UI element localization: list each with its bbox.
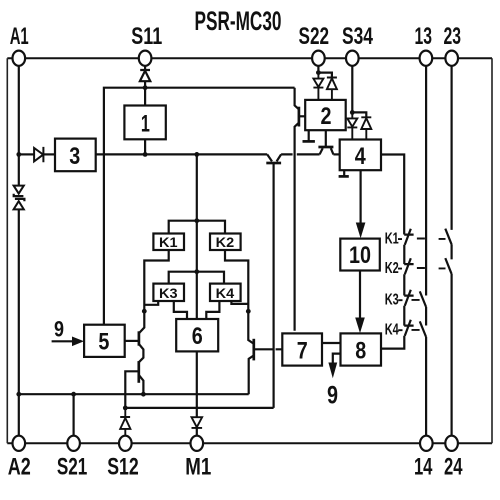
wire K1K2 bracket: [169, 221, 225, 234]
wire S34 to right diode: [352, 112, 366, 117]
wire box7 to box8: [322, 342, 341, 344]
dashed linkage K4: [398, 329, 419, 331]
wire 23 vertical: [451, 66, 453, 230]
terminal S12: [119, 436, 132, 451]
contact K1 in 23-24 path (NO): [445, 229, 451, 260]
svg-text:4: 4: [355, 143, 366, 170]
node S12 on rail B: [123, 406, 128, 411]
relay coil K1: [153, 234, 184, 251]
svg-text:S34: S34: [342, 24, 374, 50]
node right coil rail: [246, 309, 251, 314]
svg-text:2: 2: [321, 103, 332, 130]
contact K3 in 13-14 path (NO): [420, 291, 426, 325]
transistor Q3 (upper, inline on vertical, base to box2): [295, 88, 306, 331]
wire K4 bottom-left to box6: [206, 301, 219, 319]
svg-text:S11: S11: [131, 24, 162, 50]
wire rail A (A2 rail): [19, 393, 249, 395]
svg-text:8: 8: [355, 337, 366, 364]
diode S22-right (up): [327, 78, 337, 100]
box 1: [124, 106, 165, 140]
svg-text:9: 9: [327, 382, 338, 410]
terminal S21: [67, 436, 80, 451]
node bus-Kcolumn: [194, 152, 199, 157]
box 7: [282, 333, 322, 365]
transistor Q6 darlington lower: [139, 361, 144, 394]
wire S34 stub: [351, 66, 353, 113]
node bus-box1: [143, 152, 148, 157]
svg-text:K3: K3: [385, 291, 399, 308]
contact K2 in 23-24 path (NO): [445, 258, 451, 436]
node K3K4 bracket: [194, 269, 199, 274]
svg-text:6: 6: [192, 323, 203, 350]
dashed linkage K2: [398, 267, 446, 270]
svg-text:K3: K3: [159, 286, 178, 302]
box 3: [55, 139, 96, 172]
svg-text:24: 24: [444, 454, 463, 480]
node darlington emitter on rail: [141, 392, 146, 397]
terminal S34: [346, 51, 359, 66]
wire box5 base out: [125, 340, 139, 342]
wire A1 to diode: [19, 153, 34, 155]
diode S11: [140, 70, 150, 81]
outer frame: [7, 58, 492, 443]
arrow box10 to box8: [355, 271, 365, 334]
contact K3 feedback (NC): [404, 290, 413, 326]
node S21 on rail: [71, 392, 76, 397]
wire box1 bottom: [144, 139, 146, 154]
svg-text:A1: A1: [10, 24, 29, 50]
box 10: [340, 239, 380, 271]
box 8: [341, 333, 382, 365]
relay coil K3: [153, 284, 184, 301]
svg-text:S21: S21: [57, 454, 88, 480]
svg-text:7: 7: [297, 337, 308, 364]
svg-text:A2: A2: [8, 454, 31, 480]
wire K2 bottom to right rail: [225, 250, 248, 311]
box 6: [176, 319, 218, 351]
svg-text:K1: K1: [385, 230, 399, 247]
wire A1 vertical: [18, 66, 20, 436]
terminal S22: [312, 51, 325, 66]
relay coil K2: [210, 234, 241, 251]
transistor Q4 (base to box7): [248, 311, 282, 394]
svg-text:14: 14: [414, 454, 433, 480]
wire box4 right output: [381, 155, 404, 235]
wire K1 bottom to left rail: [144, 250, 168, 311]
node A2 rail left: [16, 392, 21, 397]
wire rail B (S12 rail): [125, 407, 273, 409]
svg-text:S22: S22: [299, 24, 330, 50]
terminal 13: [420, 51, 433, 66]
svg-text:K2: K2: [216, 235, 235, 251]
node left coil rail: [142, 309, 147, 314]
diode S34-left (down): [347, 112, 357, 139]
box 2: [305, 100, 346, 130]
terminal 24: [445, 436, 458, 451]
svg-text:23: 23: [444, 24, 462, 50]
arrow box4 to box10: [356, 170, 366, 238]
svg-text:K4: K4: [216, 286, 235, 302]
terminal 23: [445, 51, 458, 66]
wire K3K4 bracket: [169, 272, 224, 284]
wire M1 diode to terminal: [196, 428, 198, 436]
diode S12 (zener up): [120, 408, 130, 436]
arrow output 9 below box8: [328, 354, 340, 379]
terminal A2: [12, 436, 25, 451]
wire S22 to right diode: [318, 73, 332, 78]
relay coil K4: [210, 284, 241, 301]
diode M1: [192, 417, 203, 428]
box 4: [340, 140, 381, 171]
node A1-bus junction: [16, 152, 21, 157]
wire S22 stub: [317, 66, 319, 73]
svg-text:3: 3: [69, 143, 80, 170]
box 5: [84, 325, 125, 357]
wire K3 bottom-right to box6: [174, 301, 187, 319]
svg-text:S12: S12: [107, 454, 139, 480]
contact K4 feedback (NC): [381, 320, 414, 349]
wire box1 top: [144, 88, 146, 106]
terminal S11: [139, 51, 152, 66]
wire S21 stub: [72, 394, 74, 436]
svg-text:9: 9: [54, 316, 64, 341]
transistor Q2 (inline, base to box2): [318, 130, 333, 154]
node K1K2 bracket: [194, 218, 199, 223]
wire box6 bottom to M1: [196, 351, 198, 417]
svg-text:K1: K1: [159, 235, 178, 251]
wire K column vertical: [196, 154, 198, 319]
wire K3 bottom-left join: [144, 301, 158, 305]
svg-text:M1: M1: [185, 454, 211, 480]
arrow input 9 to box5: [52, 337, 84, 347]
node S34 junction: [350, 110, 355, 115]
wire diode to box3: [43, 153, 55, 155]
contact K2 feedback (NC): [404, 258, 413, 295]
TVS diode A1-A2: [14, 186, 25, 210]
ground below box2: [303, 130, 315, 141]
node S11-bus junction: [143, 85, 148, 90]
diode S34-right (up): [361, 117, 371, 139]
transistor Q1 (inline on bus): [266, 154, 281, 408]
wire Q2 to box4: [333, 153, 339, 155]
terminal M1: [191, 436, 204, 451]
ground below box4: [339, 170, 349, 176]
svg-text:1: 1: [141, 111, 150, 138]
dashed linkage K3: [398, 299, 419, 301]
diode S22-left (down): [313, 73, 323, 100]
wire main bus y=154.4: [96, 153, 268, 155]
wire bus right of Q1: [281, 153, 320, 155]
wire S11 stub: [144, 66, 146, 88]
svg-text:5: 5: [98, 328, 109, 355]
dashed linkage K1: [398, 238, 446, 241]
node S22 junction: [316, 70, 321, 75]
svg-text:PSR-MC30: PSR-MC30: [195, 6, 282, 36]
svg-text:13: 13: [414, 24, 432, 50]
contact K4 in 13-14 path (NO): [420, 321, 426, 435]
wire 13 vertical: [425, 66, 427, 296]
diode D-A1 (to box 3): [34, 147, 43, 162]
terminal A1: [12, 51, 25, 66]
terminal 14: [420, 436, 433, 451]
svg-text:K2: K2: [385, 260, 399, 277]
wire Q6 base shunt: [125, 371, 139, 408]
wire K4 bottom-right join: [231, 301, 248, 304]
wire top bus y=87.7: [104, 88, 295, 325]
svg-text:K4: K4: [385, 321, 399, 338]
contact K1 feedback (NC): [404, 229, 413, 264]
transistor Q5 darlington upper: [139, 311, 144, 362]
svg-text:10: 10: [349, 242, 371, 269]
